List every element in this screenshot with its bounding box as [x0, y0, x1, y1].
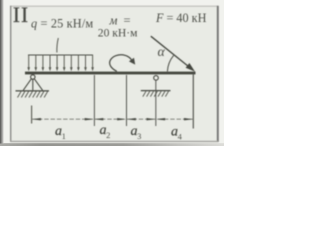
- force F arrowhead: [186, 63, 195, 72]
- frame top: [10, 5, 218, 7]
- svg-text:q = 25 кН/м: q = 25 кН/м: [31, 17, 93, 31]
- dimension arrowheads: [32, 118, 193, 120]
- svg-text:м =: м =: [109, 14, 133, 28]
- extension line right end: [192, 75, 194, 129]
- dimension line: [32, 118, 194, 120]
- pin support circle: [31, 75, 35, 79]
- distributed load arrows: [29, 55, 93, 69]
- beam: [25, 72, 196, 75]
- svg-text:3: 3: [137, 131, 141, 141]
- svg-text:1: 1: [62, 131, 66, 141]
- leader line from q label: [57, 38, 58, 53]
- pin support ground line: [16, 90, 50, 92]
- angle alpha arc: [167, 55, 173, 71]
- svg-text:II: II: [13, 2, 29, 27]
- roller support ground line: [141, 90, 171, 92]
- frame right: [217, 6, 219, 142]
- distributed load q top line: [28, 54, 93, 56]
- extension line a1-a2 boundary: [93, 75, 95, 126]
- frame left: [10, 6, 12, 142]
- bottom scan band: [0, 143, 224, 146]
- extension line under roller / tick a3-a4: [155, 80, 157, 126]
- left dark scan band: [0, 0, 4, 144]
- page background: [0, 0, 224, 146]
- panel interior: [10, 6, 218, 142]
- roller support circle: [154, 76, 159, 81]
- extension line a2-a3 boundary: [126, 75, 128, 126]
- svg-text:F = 40 кН: F = 40 кН: [155, 11, 207, 25]
- force F line: [151, 36, 189, 67]
- pin support hatching: [18, 92, 48, 98]
- pin support triangle: [23, 79, 42, 91]
- frame bottom: [10, 141, 218, 143]
- svg-text:2: 2: [106, 130, 110, 140]
- left dimension tick: [31, 106, 33, 124]
- svg-text:4: 4: [178, 132, 183, 142]
- moment arrow (curl): [110, 55, 132, 72]
- svg-text:20 кН·м: 20 кН·м: [98, 27, 138, 40]
- roller support hatching: [143, 91, 169, 96]
